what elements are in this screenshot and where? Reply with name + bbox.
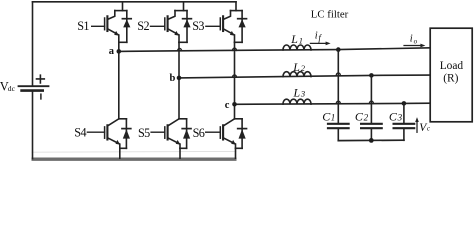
wire: DC- bottom rail (box bottom edge, thick grey band) <box>33 157 235 160</box>
wire: leg1 cell bottom bar <box>119 41 127 43</box>
svg-text:c: c <box>427 125 431 133</box>
capacitor C3 <box>394 103 415 140</box>
junction dot: star-point <box>369 138 374 143</box>
IGBT S6 <box>206 119 236 149</box>
svg-text:L: L <box>290 32 298 46</box>
svg-text:c: c <box>225 100 230 111</box>
inductor L2 <box>283 72 311 77</box>
battery Vdc bottom plate <box>22 89 43 92</box>
junction dot: phase c / C3 tap <box>402 101 407 106</box>
svg-text:i: i <box>410 33 413 44</box>
junction dot: phase b / C2 tap <box>369 73 374 78</box>
svg-text:i: i <box>315 31 318 42</box>
hop: phase a over leg3 <box>233 48 237 50</box>
battery plus sign <box>37 75 45 83</box>
svg-text:3: 3 <box>397 112 403 122</box>
hop: phase b over C1 wire <box>336 73 340 75</box>
node c junction dot <box>232 102 237 107</box>
hop: phase c over C1 wire <box>336 101 340 103</box>
wire: leg1 lower cell bottom bar <box>120 147 127 149</box>
svg-text:dc: dc <box>8 84 16 93</box>
IGBT S1 <box>92 11 119 43</box>
wire: left edge upper (DC source positive branch) <box>32 2 34 86</box>
wire: leg1 stub to DC+ rail <box>122 2 124 11</box>
svg-text:o: o <box>414 37 418 45</box>
wire: leg3 lower cell bottom bar <box>236 147 243 149</box>
svg-text:S5: S5 <box>138 126 150 140</box>
wire: leg1 vertical (node a leg) <box>118 42 120 119</box>
IGBT S5 <box>151 119 180 149</box>
wire: leg3 stub to DC- rail (rail end) <box>235 148 237 158</box>
wire: phase c line (node c to load) <box>235 103 431 104</box>
svg-text:2: 2 <box>364 112 369 122</box>
wire: leg3 stub to DC+ rail (rail end corner) <box>235 2 237 11</box>
diode (S4 antiparallel) <box>122 119 131 149</box>
wire: leg2 cell bottom bar <box>179 41 187 43</box>
battery Vdc top plate <box>19 85 49 87</box>
IGBT S3 <box>206 11 235 43</box>
battery minus sign <box>40 94 42 99</box>
hop: phase a over leg2 <box>178 49 182 51</box>
svg-text:1: 1 <box>299 35 303 45</box>
wire: DC+ top rail (box top edge) <box>33 1 237 3</box>
node a junction dot <box>117 49 122 54</box>
load box <box>430 28 472 122</box>
svg-text:1: 1 <box>331 112 336 122</box>
svg-text:a: a <box>109 46 115 57</box>
wire: bottom rail scan ghost line <box>32 150 236 153</box>
node b junction dot <box>177 76 182 81</box>
arrow: filter current i_f <box>310 42 330 46</box>
IGBT S4 <box>87 119 120 149</box>
diode (S2 antiparallel) <box>183 11 192 43</box>
diode (S1 antiparallel) <box>122 11 131 43</box>
inductor L1 <box>283 45 311 50</box>
wire: leg2 stub to DC- rail <box>179 148 181 158</box>
wire: phase a line (node a to load) <box>119 48 430 52</box>
wire: leg2 cell top bar <box>175 10 187 12</box>
svg-text:3: 3 <box>300 89 305 99</box>
wire: leg3 cell top bar <box>231 10 243 12</box>
diode (S3 antiparallel) <box>238 11 247 43</box>
svg-text:Load: Load <box>440 60 464 72</box>
svg-text:(R): (R) <box>443 73 458 85</box>
hop: phase b over leg3 <box>233 75 237 77</box>
wire: left edge lower (DC source negative branch) <box>32 91 34 159</box>
diode (S5 antiparallel) <box>182 119 191 149</box>
svg-text:LC filter: LC filter <box>311 8 349 20</box>
wire: capacitor star-point bus <box>338 139 404 141</box>
capacitor C1 <box>328 50 349 141</box>
wire: leg3 cell bottom bar <box>235 41 243 43</box>
wire: leg3 vertical (node c leg) <box>234 42 236 119</box>
hop: phase c over C2 wire <box>369 101 373 103</box>
svg-text:f: f <box>318 33 322 43</box>
wire: leg2 vertical (node b leg) <box>178 42 180 119</box>
inductor L3 <box>283 99 311 104</box>
capacitor C2 <box>361 75 382 140</box>
wire: leg2 lower cell top bar <box>179 118 187 120</box>
junction dot: phase a / C1 tap <box>336 47 341 52</box>
svg-text:b: b <box>170 73 176 84</box>
svg-text:S6: S6 <box>193 126 205 140</box>
diode (S6 antiparallel) <box>238 119 247 149</box>
wire: leg2 lower cell bottom bar <box>180 147 187 149</box>
svg-text:C: C <box>389 109 398 123</box>
svg-text:L: L <box>292 60 300 74</box>
svg-text:S1: S1 <box>77 19 89 33</box>
wire: leg1 stub to DC- rail <box>119 148 121 158</box>
wire: phase b line (node b to load) <box>179 75 430 78</box>
wire: leg2 stub to DC+ rail <box>183 2 185 11</box>
IGBT S2 <box>151 11 180 43</box>
wire: leg1 cell top bar <box>115 10 127 12</box>
svg-text:S2: S2 <box>137 19 149 33</box>
arrow: output current i_o <box>404 44 425 48</box>
svg-text:2: 2 <box>301 63 306 73</box>
svg-text:S3: S3 <box>192 19 204 33</box>
svg-text:S4: S4 <box>74 125 86 139</box>
arrow: capacitor voltage Vc <box>415 117 419 132</box>
svg-text:L: L <box>293 85 301 99</box>
wire: leg3 lower cell top bar <box>235 118 243 120</box>
wire: leg1 lower cell top bar <box>119 118 127 120</box>
svg-text:C: C <box>355 109 364 123</box>
